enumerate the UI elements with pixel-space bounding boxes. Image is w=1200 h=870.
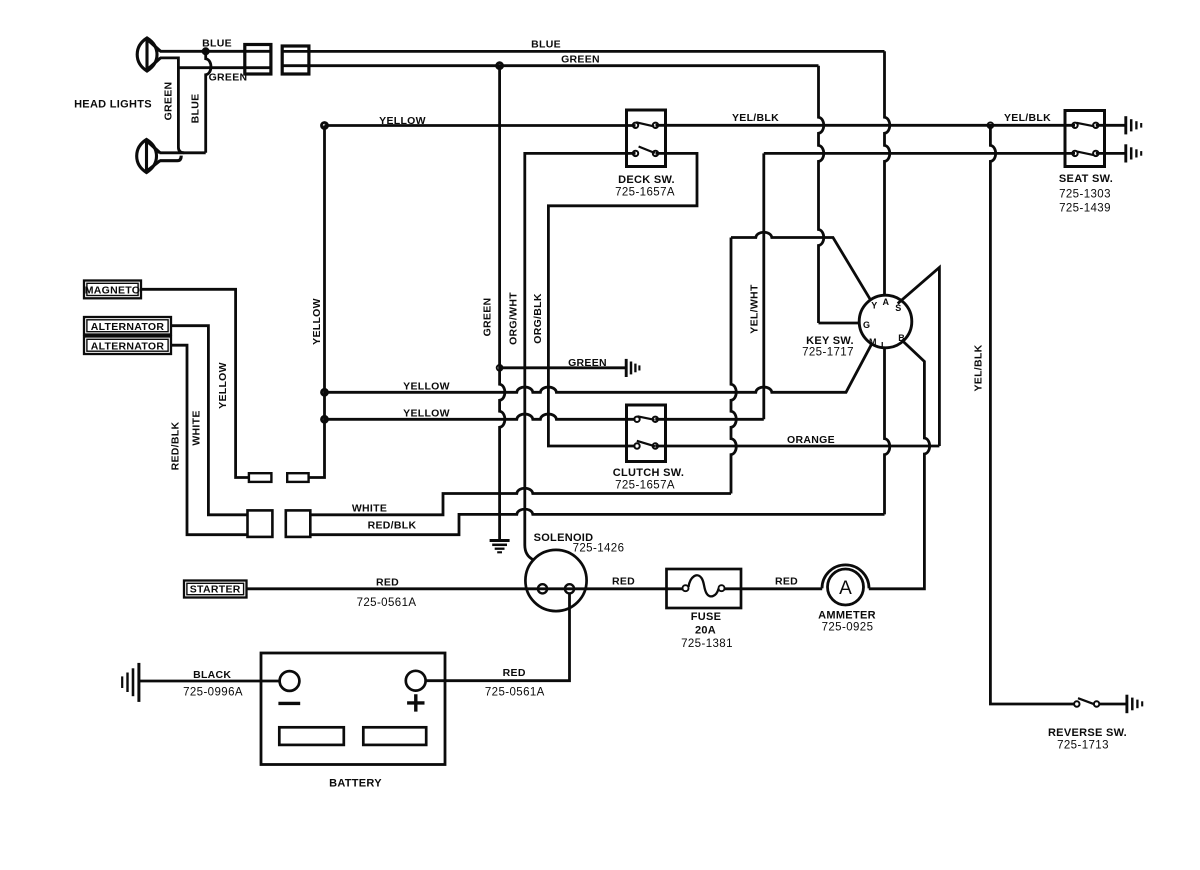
wire BLACK (ground to battery negative) (140, 680, 281, 683)
junction dot blue tee (203, 49, 208, 54)
wire key switch B lead (diagonal, drop to ammeter, hops orange) (869, 340, 930, 589)
contact seat switch bottom-right (1093, 151, 1098, 156)
component CLUTCH SW. box (627, 405, 666, 462)
wire lamp1 lower lead to green tee (160, 58, 184, 153)
blade seat switch top (1077, 123, 1095, 127)
ground (seat switch bottom) (1126, 144, 1141, 162)
junction dot yellow riser top (322, 123, 328, 129)
wire alternator red/blk lead (171, 345, 248, 535)
svg-text:ORANGE: ORANGE (787, 434, 835, 446)
wire YELLOW row 1 (to key switch M terminal, hops org wires and yel/wht) (325, 345, 872, 393)
component MAGNETO box (84, 281, 141, 299)
svg-text:A: A (839, 578, 852, 599)
contact seat switch bottom-left (1072, 151, 1077, 156)
contact deck switch top-right (653, 123, 658, 128)
svg-text:725-0925: 725-0925 (822, 622, 874, 634)
junction dot yellow row 2 tap (322, 416, 328, 422)
wire G terminal lead (819, 322, 860, 325)
contact deck switch top-left (633, 123, 638, 128)
connector J4 (magneto plug right) (287, 473, 308, 482)
svg-text:YEL/WHT: YEL/WHT (748, 284, 760, 334)
ground (reverse switch) (1127, 695, 1142, 714)
svg-text:BATTERY: BATTERY (329, 778, 382, 790)
connector J6 (main harness right half) (286, 510, 311, 537)
svg-text:YEL/BLK: YEL/BLK (973, 344, 985, 391)
svg-text:GREEN: GREEN (482, 298, 494, 337)
wire seat switch top to ground (1096, 124, 1125, 127)
junction ring yel/blk tap (988, 122, 994, 128)
blade deck switch top (636, 122, 654, 126)
component SOLENOID (525, 550, 586, 611)
battery cell 1 (279, 727, 344, 745)
component SEAT SW. box (1065, 111, 1105, 167)
svg-text:BLACK: BLACK (193, 669, 231, 681)
wire reverse switch to ground (1099, 703, 1126, 706)
svg-text:RED: RED (503, 667, 526, 679)
svg-text:WHITE: WHITE (190, 410, 202, 445)
blade clutch switch top (638, 416, 655, 420)
contact seat switch top-right (1093, 123, 1098, 128)
svg-text:725-1426: 725-1426 (573, 543, 625, 555)
svg-text:GREEN: GREEN (568, 357, 607, 369)
svg-text:ALTERNATOR: ALTERNATOR (91, 321, 165, 333)
svg-text:Y: Y (871, 301, 877, 311)
svg-text:725-1303: 725-1303 (1059, 189, 1111, 201)
svg-text:YELLOW: YELLOW (403, 408, 450, 420)
wire row 2 (yel/wht riser to seat switch) (764, 152, 1075, 155)
svg-text:L: L (881, 341, 887, 351)
contact clutch switch top-left (634, 417, 639, 422)
svg-text:ORG/BLK: ORG/BLK (532, 293, 544, 344)
wire GREEN horizontal (tee to key switch G terminal) (178, 66, 818, 68)
wire ORANGE row (clutch switch to S riser) (655, 445, 939, 448)
wire YEL/BLK drop to reverse switch (hops row 2) (990, 125, 1074, 704)
svg-text:MAGNETO: MAGNETO (85, 284, 141, 296)
battery negative sign (278, 702, 300, 705)
contact deck switch bottom-left (633, 151, 638, 156)
wire BLUE vertical to key switch A (hops rows) (885, 51, 890, 295)
wire alternator white lead (171, 326, 248, 515)
wire deck switch lower-left lead to ORG/WHT (525, 153, 636, 559)
svg-text:M: M (869, 337, 877, 347)
headlight LAMP2 (lower) (137, 140, 182, 173)
svg-text:YELLOW: YELLOW (379, 115, 426, 127)
svg-text:725-0561A: 725-0561A (485, 687, 545, 699)
svg-text:725-1381: 725-1381 (681, 638, 733, 650)
component STARTER box (184, 581, 247, 598)
svg-text:RED: RED (612, 576, 635, 588)
svg-text:725-1657A: 725-1657A (615, 479, 675, 491)
svg-text:725-1717: 725-1717 (802, 347, 854, 359)
svg-text:G: G (863, 320, 870, 330)
blade seat switch bottom (1077, 151, 1095, 155)
svg-text:ALTERNATOR: ALTERNATOR (91, 340, 165, 352)
ground (green wire, below solenoid) (490, 541, 510, 553)
battery positive sign (407, 694, 424, 711)
blade deck switch bottom (639, 147, 655, 154)
component AMMETER (822, 565, 869, 605)
contact clutch switch top-right (653, 417, 658, 422)
svg-text:RED/BLK: RED/BLK (170, 422, 182, 471)
wire seat switch bottom to ground (1096, 152, 1125, 155)
svg-text:KEY SW.: KEY SW. (806, 335, 854, 347)
svg-text:725-0996A: 725-0996A (183, 687, 243, 699)
component FUSE box (667, 569, 742, 608)
contact seat switch top-left (1072, 123, 1077, 128)
battery negative terminal (280, 671, 300, 691)
svg-text:YELLOW: YELLOW (217, 362, 229, 409)
connector J5 (main harness left half) (248, 510, 273, 537)
svg-text:FUSE: FUSE (691, 611, 722, 623)
svg-text:DECK SW.: DECK SW. (618, 174, 675, 186)
connector J3 (magneto plug left) (249, 473, 272, 482)
svg-text:YEL/BLK: YEL/BLK (1004, 112, 1051, 124)
svg-text:SEAT SW.: SEAT SW. (1059, 173, 1113, 185)
svg-text:725-1439: 725-1439 (1059, 203, 1111, 215)
component DECK SW. box (627, 110, 666, 167)
svg-text:RED: RED (376, 576, 399, 588)
svg-text:STARTER: STARTER (190, 584, 241, 596)
wire key switch L lead down (hops orange row) (885, 348, 890, 515)
wire BLUE vertical to lamp2 (with hop over green) (206, 51, 211, 153)
wire deck switch lower-right lead to ORG/BLK to clutch switch (548, 153, 697, 446)
svg-text:BLUE: BLUE (190, 94, 202, 124)
svg-text:725-1713: 725-1713 (1057, 739, 1109, 751)
battery cell 2 (363, 727, 426, 745)
svg-text:ORG/WHT: ORG/WHT (507, 292, 519, 345)
component ALTERNATOR box 1 (84, 317, 171, 335)
svg-text:GREEN: GREEN (561, 54, 600, 66)
wire magneto yellow lead (141, 289, 249, 477)
contact clutch switch bottom-left (634, 443, 639, 448)
wire YELLOW row 2 left (to clutch switch, hops org wires) (325, 414, 636, 419)
svg-text:AMMETER: AMMETER (818, 610, 876, 622)
wire YELLOW row 2 right (clutch switch to yel/wht riser) (655, 418, 764, 421)
junction dot green branch (497, 365, 503, 371)
battery positive terminal (406, 671, 426, 691)
contact deck switch bottom-right (653, 151, 658, 156)
svg-text:GREEN: GREEN (209, 72, 248, 84)
svg-text:725-1657A: 725-1657A (615, 186, 675, 198)
component ALTERNATOR box 2 (84, 337, 171, 355)
wire lamp2 top lead (160, 151, 206, 154)
wire RED main (starter through solenoid to fuse) (247, 587, 683, 590)
connector J1 (headlight harness left half) (245, 45, 271, 75)
component REVERSE SW. (1074, 698, 1099, 707)
svg-text:20A: 20A (695, 625, 716, 637)
wire GREEN vertical (to engine ground, hops yellow rows) (500, 66, 505, 540)
svg-text:725-0561A: 725-0561A (357, 597, 417, 609)
svg-text:REVERSE SW.: REVERSE SW. (1048, 727, 1127, 739)
svg-text:BLUE: BLUE (531, 39, 561, 51)
wire WHITE run (connector to key switch Y wire, hops org/wht) (310, 488, 731, 515)
svg-text:YELLOW: YELLOW (403, 381, 450, 393)
wire GREEN branch to chassis ground (500, 366, 626, 369)
svg-text:YEL/BLK: YEL/BLK (732, 112, 779, 124)
svg-text:A: A (883, 297, 890, 307)
blade clutch switch bottom (637, 441, 655, 447)
wire Y line (horizontal, hops yel/wht, to key switch Y terminal) (731, 232, 871, 300)
junction dot yellow row 1 tap (322, 389, 328, 395)
wire key switch S lead (diagonal and riser to orange row) (898, 268, 940, 447)
wire fuse to ammeter (725, 587, 823, 590)
component KEY SW. circle (859, 295, 912, 348)
contact clutch switch bottom-right (653, 443, 658, 448)
svg-text:YELLOW: YELLOW (311, 298, 323, 345)
headlight LAMP1 (upper) (137, 38, 160, 71)
svg-text:WHITE: WHITE (352, 502, 387, 514)
svg-text:S: S (895, 303, 901, 313)
svg-text:RED: RED (775, 576, 798, 588)
svg-text:GREEN: GREEN (163, 82, 175, 121)
wire YELLOW top row (riser to deck switch) (325, 124, 636, 127)
ground (battery negative chassis) (122, 663, 139, 702)
wire BLUE top (lamp1 to key switch A terminal) (160, 50, 885, 53)
wire YEL/WHT riser (762, 153, 765, 419)
wire solenoid to battery positive (426, 593, 570, 680)
connector J2 (headlight harness right half) (282, 46, 309, 74)
ground (green branch, chassis bars) (626, 359, 639, 377)
svg-text:HEAD LIGHTS: HEAD LIGHTS (74, 99, 152, 111)
wire YEL/BLK row (deck switch to seat switch) (656, 124, 1076, 127)
wire yellow riser from magneto plug (309, 126, 325, 478)
component BATTERY box (261, 653, 445, 765)
ground (seat switch top) (1126, 116, 1141, 134)
junction dot green vertical tap (497, 63, 503, 69)
fuse element (683, 575, 725, 596)
wire GREEN vertical to key switch G (hops rows and Y line) (819, 66, 824, 323)
svg-text:CLUTCH SW.: CLUTCH SW. (613, 467, 684, 479)
wire white riser to key switch Y line (hops orange and yellow rows) (731, 238, 736, 494)
wire RED/BLK run (connector to key switch L wire, hops org/wht) (310, 509, 884, 535)
svg-text:RED/BLK: RED/BLK (368, 520, 417, 532)
